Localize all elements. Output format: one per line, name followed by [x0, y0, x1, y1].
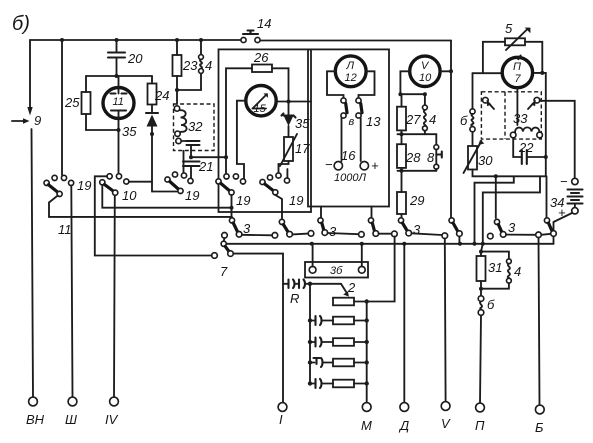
resistor 23: [173, 38, 199, 104]
RC row 2: [308, 316, 369, 325]
wire tube15 right lead: [276, 101, 311, 103]
svg-text:35: 35: [122, 124, 137, 139]
svg-text:10: 10: [419, 72, 432, 84]
box block 15: [219, 49, 312, 212]
wire rail IV: [113, 195, 116, 397]
svg-text:П: П: [513, 61, 521, 73]
switch 3-7: [488, 219, 517, 239]
meter Л12: [335, 56, 366, 87]
RC row 3: [308, 338, 369, 347]
switch 3-6: [442, 218, 462, 244]
switch 3-2: [272, 219, 292, 238]
wire 3-1 to 3-2: [242, 234, 272, 237]
tube 15 (thermo element): [246, 86, 276, 116]
node cap21 junction: [189, 155, 226, 159]
spring contact 4c: [481, 252, 521, 289]
svg-text:21: 21: [198, 159, 213, 174]
wire 26 right to node: [272, 68, 291, 103]
svg-text:−: −: [560, 174, 568, 189]
wire V rail: [444, 239, 447, 402]
wire 17 to 19d: [279, 161, 289, 173]
wire П rail: [480, 315, 481, 403]
capacitor 20: [108, 38, 143, 76]
wire bus4: [224, 242, 554, 246]
svg-text:19: 19: [236, 193, 250, 208]
terminal V: [441, 402, 451, 431]
wire box16 to switch3-4: [371, 207, 373, 219]
svg-text:8: 8: [427, 150, 435, 165]
wire 3-3 to 3-4: [328, 233, 359, 234]
terminal Ш: [65, 397, 77, 427]
wire 5 right lead: [525, 42, 542, 73]
svg-text:+: +: [371, 158, 379, 173]
terminal Б: [535, 405, 544, 435]
wire cathode node 35: [86, 124, 137, 139]
relay contact right: [528, 97, 540, 109]
terminal I: [278, 403, 287, 427]
wire Л12 right lead: [359, 71, 375, 98]
svg-text:5: 5: [505, 21, 513, 36]
svg-text:19: 19: [185, 188, 199, 203]
wire rail drop to switch 19a: [61, 40, 63, 175]
wire zener node to 19d: [286, 169, 288, 178]
svg-text:R: R: [290, 291, 299, 306]
node row 29 top: [398, 169, 437, 173]
svg-text:11: 11: [113, 96, 124, 108]
terminal М: [361, 403, 372, 433]
switch 19b: [165, 172, 200, 203]
RC row 4 trimmer: [308, 358, 369, 367]
contact б (left): [460, 109, 475, 132]
wire 19a arm to bus2: [49, 196, 58, 217]
svg-text:3: 3: [243, 221, 251, 236]
capacitor R row: [283, 280, 312, 307]
svg-text:27: 27: [405, 112, 421, 127]
wire 10 right contact east: [129, 181, 152, 183]
switch 10: [100, 174, 138, 203]
relay armature dashed line: [504, 92, 506, 139]
node row 28 top: [398, 132, 437, 136]
trimmer contact 8: [427, 134, 442, 171]
svg-text:IV: IV: [105, 412, 119, 427]
svg-text:4: 4: [514, 264, 521, 279]
svg-text:1000Л: 1000Л: [334, 172, 366, 184]
svg-text:ВН: ВН: [26, 412, 45, 427]
resistor 26: [252, 50, 272, 72]
diode D: [146, 113, 158, 192]
wire Л12 left lead: [327, 71, 344, 98]
wire 3-7 to Б rail: [506, 232, 551, 238]
wire 5 left lead: [483, 42, 505, 73]
wire top rail right segment: [258, 40, 451, 42]
switch 3-4: [359, 218, 379, 237]
switch 3-1: [222, 208, 251, 238]
wire box7 bottom exits: [475, 174, 547, 244]
shield box 32 (dashed): [174, 104, 215, 151]
svg-text:30: 30: [478, 153, 493, 168]
wire diode node to 19b arm: [152, 191, 178, 193]
battery 34: [550, 174, 583, 220]
wire rail Ш: [71, 186, 72, 398]
switch 7: [212, 238, 234, 279]
svg-text:15: 15: [254, 103, 267, 115]
svg-text:20: 20: [127, 51, 143, 66]
wire right rail to battery: [540, 101, 575, 178]
svg-text:29: 29: [409, 193, 424, 208]
svg-text:−: −: [325, 157, 333, 172]
svg-text:Б: Б: [535, 420, 544, 435]
wire Б rail: [539, 238, 540, 405]
svg-text:3б: 3б: [330, 265, 343, 277]
box 3б: [305, 262, 368, 278]
svg-text:11: 11: [58, 222, 72, 237]
svg-text:4: 4: [429, 112, 436, 127]
svg-text:10: 10: [122, 188, 137, 203]
switch 19d: [260, 173, 304, 208]
wire bus2: [49, 216, 232, 218]
box block 16: [308, 49, 389, 206]
wire tube15 left lead: [237, 101, 246, 179]
zener 35: [282, 102, 311, 138]
wire coil tap to 19b: [183, 151, 185, 172]
galvanometer terminal plus: [334, 118, 379, 184]
svg-text:3: 3: [329, 224, 337, 239]
wire 3-2 to 3-3: [292, 233, 308, 236]
svg-text:19: 19: [77, 178, 91, 193]
svg-text:22: 22: [518, 140, 534, 155]
terminal II: [398, 403, 409, 433]
svg-text:в: в: [349, 116, 355, 128]
wire 10 left contact to switch7 bus: [95, 176, 107, 255]
wire battery to bus4: [554, 213, 573, 244]
wire V10 left lead: [400, 71, 409, 94]
svg-text:3: 3: [413, 222, 421, 237]
terminal П: [475, 403, 485, 433]
svg-text:М: М: [361, 418, 372, 433]
resistor 30 (variable): [464, 140, 494, 173]
tube U11: [103, 76, 134, 176]
resistor 2 (variable) with arrow: [310, 237, 395, 384]
svg-text:4: 4: [205, 58, 212, 73]
svg-text:19: 19: [289, 193, 303, 208]
resistor 25: [64, 76, 91, 130]
wire 3-4 to 3-5: [379, 233, 392, 235]
svg-text:14: 14: [257, 16, 271, 31]
contact б lower: [478, 289, 495, 316]
relay contact в: [341, 98, 355, 128]
label 11 wire: [58, 222, 72, 237]
resistor 28: [397, 134, 421, 171]
svg-text:V: V: [441, 416, 451, 431]
svg-text:28: 28: [405, 150, 421, 165]
wire top rail left segment: [30, 39, 243, 41]
capacitor 21: [183, 159, 213, 179]
meter V10: [410, 56, 440, 86]
box block 7: [473, 71, 546, 176]
svg-text:б: б: [487, 297, 495, 312]
resistor 31: [477, 244, 503, 291]
terminal ВН: [26, 397, 45, 427]
svg-text:I: I: [279, 412, 283, 427]
input arrow / jack 9: [12, 40, 41, 128]
coil 32: [174, 106, 203, 157]
switch 3-5: [392, 218, 421, 237]
svg-text:26: 26: [253, 50, 269, 65]
svg-text:7: 7: [220, 264, 228, 279]
capacitor 22: [513, 138, 548, 164]
spring contact 4: [177, 38, 212, 90]
svg-text:32: 32: [188, 119, 203, 134]
resistor 5 (variable): [505, 21, 530, 50]
svg-text:б: б: [460, 113, 468, 128]
tube П7: [502, 56, 532, 125]
svg-text:25: 25: [64, 95, 80, 110]
switch 19a: [44, 175, 91, 196]
figure label б): [12, 13, 30, 35]
wire bus1 from switch10 pivot: [102, 185, 232, 208]
switch 3-8: [544, 218, 556, 237]
coil 33: [510, 111, 542, 138]
svg-text:3: 3: [508, 220, 516, 235]
resistor 17 (variable): [280, 134, 310, 166]
wire node line y76: [86, 74, 152, 78]
galvanometer terminal minus: [325, 118, 342, 172]
wire rail to terminal ВН: [32, 129, 34, 397]
relay box (dashed): [481, 92, 541, 139]
wire 3-5 to 3-6: [412, 233, 443, 235]
relay contact left: [483, 97, 494, 109]
node junction at x62 on rail: [60, 38, 64, 42]
svg-text:7: 7: [515, 73, 522, 85]
resistor 24: [148, 76, 170, 113]
svg-text:12: 12: [345, 72, 357, 84]
wire V10 right lead: [440, 69, 453, 73]
svg-text:24: 24: [154, 88, 169, 103]
svg-text:Д: Д: [398, 418, 409, 433]
svg-text:23: 23: [182, 58, 198, 73]
wire 26 left to 19c: [224, 68, 252, 174]
wire box16 to switch3-3: [320, 207, 322, 219]
resistor 29: [397, 171, 424, 218]
wire armend to I spine: [233, 254, 283, 403]
svg-text:16: 16: [341, 148, 356, 163]
switch 3-3: [308, 218, 337, 239]
svg-text:2: 2: [347, 280, 356, 295]
spring contact 4b: [423, 94, 437, 134]
wire 19c arm to bus1: [230, 195, 234, 210]
wire II rail: [403, 244, 405, 403]
wire 3б left up: [312, 244, 314, 267]
resistor 27: [397, 94, 421, 134]
relay contact 13: [356, 98, 381, 129]
svg-text:13: 13: [366, 114, 381, 129]
svg-text:Л: Л: [346, 60, 355, 72]
RC row 5: [308, 379, 369, 388]
wire 19d arm to switch3-2: [275, 195, 282, 219]
wire right drop rail x451: [450, 41, 452, 219]
svg-text:31: 31: [488, 260, 502, 275]
switch 19c: [216, 174, 251, 208]
wire switch7 to switch10: [95, 255, 212, 257]
wire M spine: [366, 302, 368, 403]
svg-text:9: 9: [34, 113, 41, 128]
node row 27/4 top: [398, 92, 427, 96]
svg-text:б): б): [12, 13, 30, 35]
svg-text:33: 33: [513, 111, 528, 126]
wire 3б right up: [361, 244, 363, 267]
svg-text:Ш: Ш: [65, 412, 77, 427]
terminal IV: [105, 397, 119, 427]
svg-text:П: П: [475, 418, 485, 433]
pushbutton 14: [241, 16, 272, 43]
